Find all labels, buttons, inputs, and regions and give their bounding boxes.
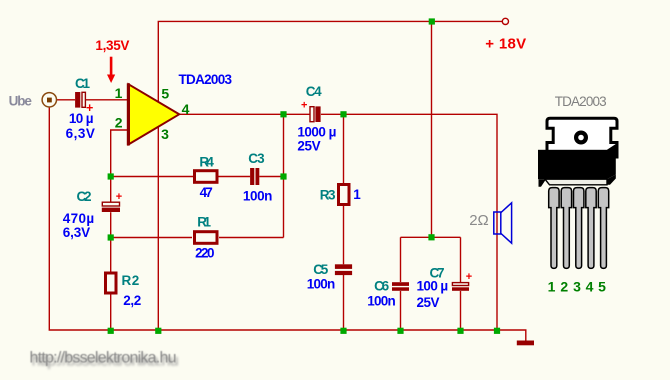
wire R3 to C5 bbox=[343, 206, 345, 264]
arrow 1,35V bbox=[107, 57, 115, 83]
resistor R1 bbox=[195, 232, 218, 244]
svg-text:6,3V: 6,3V bbox=[66, 126, 95, 141]
svg-text:2: 2 bbox=[115, 115, 123, 131]
svg-text:4: 4 bbox=[586, 278, 594, 294]
wire input ground run along bottom bbox=[49, 107, 526, 341]
wire feedback vertical from output node bbox=[283, 114, 285, 237]
node junction bottom C6 bbox=[397, 328, 403, 334]
svg-text:C2: C2 bbox=[77, 189, 92, 204]
node junction C2-R1-R2 bbox=[108, 234, 114, 240]
svg-text:3: 3 bbox=[573, 278, 581, 294]
svg-text:R1: R1 bbox=[197, 215, 211, 230]
wire C7 branch bottom bbox=[460, 291, 462, 330]
node junction output-R3 bbox=[340, 111, 346, 117]
wire R2 to bottom rail bbox=[110, 295, 112, 331]
svg-text:C4: C4 bbox=[306, 84, 322, 99]
node junction pin2-C2-R4 bbox=[108, 173, 114, 179]
svg-text:2,2: 2,2 bbox=[123, 293, 141, 308]
ground bbox=[517, 341, 534, 346]
wire C6 C7 top link bbox=[401, 236, 461, 238]
svg-text:TDA2003: TDA2003 bbox=[179, 72, 233, 87]
resistor R2 bbox=[106, 273, 117, 293]
wire pin3 to bottom rail bbox=[157, 128, 159, 331]
svg-text:R4: R4 bbox=[199, 154, 214, 169]
svg-text:C1: C1 bbox=[75, 76, 90, 91]
capacitor C3 bbox=[250, 168, 259, 185]
svg-text:220: 220 bbox=[195, 246, 214, 261]
node junction output-feedback bbox=[280, 111, 286, 117]
wire C1 to pin1 bbox=[86, 99, 128, 101]
svg-text:http://bsselektronika.hu: http://bsselektronika.hu bbox=[30, 349, 177, 366]
wire C2 bottom to node bbox=[110, 212, 112, 237]
svg-text:100n: 100n bbox=[367, 294, 396, 309]
wire node to C2 top bbox=[110, 177, 112, 202]
IC leg 4 bbox=[586, 188, 596, 269]
svg-text:C3: C3 bbox=[248, 151, 265, 166]
IC leg 5 bbox=[598, 188, 608, 269]
svg-text:2Ω: 2Ω bbox=[469, 212, 488, 229]
svg-text:1,35V: 1,35V bbox=[95, 38, 129, 53]
wire C6 branch top bbox=[400, 237, 402, 282]
node junction bottom C7 bbox=[457, 328, 463, 334]
IC leg 2 bbox=[561, 188, 571, 269]
node junction 18Vdrop-C6C7 bbox=[428, 234, 434, 240]
node junction bottom R2 bbox=[108, 328, 114, 334]
wire C5 to bottom rail bbox=[343, 275, 345, 330]
wire pin2 to node bbox=[111, 130, 128, 177]
wire R1 to node bbox=[111, 237, 192, 239]
IC package body side face bbox=[607, 144, 616, 179]
input terminal Ube bbox=[42, 93, 56, 107]
node junction C3-feedback bbox=[280, 173, 286, 179]
wire node to R2 bbox=[110, 238, 112, 272]
svg-text:C5: C5 bbox=[313, 262, 328, 277]
svg-text:1: 1 bbox=[548, 278, 556, 294]
IC package body bottom face bbox=[539, 175, 616, 187]
wire C7 branch top bbox=[460, 237, 462, 282]
IC package TDA2003 tab bbox=[547, 118, 617, 157]
svg-text:2: 2 bbox=[560, 278, 568, 294]
capacitor C4 bbox=[310, 106, 321, 122]
svg-text:1000 µ: 1000 µ bbox=[297, 125, 336, 140]
svg-text:5: 5 bbox=[161, 86, 169, 102]
capacitor C2 bbox=[102, 202, 120, 212]
wire top rail from pin5 to +18V terminal bbox=[158, 21, 504, 101]
svg-text:470µ: 470µ bbox=[63, 211, 94, 226]
wire C4 to speaker drop bbox=[321, 114, 497, 330]
speaker 2ohm bbox=[494, 203, 512, 243]
svg-text:+: + bbox=[301, 100, 307, 112]
capacitor C6 bbox=[392, 282, 409, 291]
resistor R3 bbox=[339, 185, 350, 205]
wire input to C1 bbox=[57, 99, 76, 101]
resistor R4 bbox=[195, 171, 218, 183]
watermark url bbox=[30, 349, 179, 369]
IC leg 1 bbox=[549, 188, 559, 269]
svg-text:25V: 25V bbox=[417, 295, 440, 310]
svg-text:1: 1 bbox=[115, 85, 123, 101]
terminal +18V open circle bbox=[502, 18, 508, 24]
wire C3 to node bbox=[259, 176, 283, 178]
svg-text:+ 18V: + 18V bbox=[485, 36, 526, 53]
wire output pin4 to C4 bbox=[179, 113, 310, 115]
svg-text:100 µ: 100 µ bbox=[417, 279, 449, 294]
svg-text:R3: R3 bbox=[320, 187, 336, 202]
svg-text:5: 5 bbox=[598, 278, 606, 294]
capacitor C7 bbox=[452, 283, 469, 291]
wire R1 line bbox=[219, 237, 284, 239]
IC package body front bbox=[538, 150, 607, 179]
wire node to R4 bbox=[111, 176, 193, 178]
IC package hole bbox=[576, 133, 586, 143]
IC leg 3 bbox=[574, 188, 584, 269]
wire R4 to C3 bbox=[219, 176, 251, 178]
op-amp U1 TDA2003 triangle bbox=[128, 83, 179, 145]
node junction bottom pin3 bbox=[155, 328, 161, 334]
wire C6 branch bottom bbox=[400, 291, 402, 330]
svg-text:100n: 100n bbox=[307, 277, 336, 292]
svg-text:10 µ: 10 µ bbox=[69, 111, 94, 126]
svg-text:C6: C6 bbox=[374, 278, 389, 293]
svg-text:+: + bbox=[116, 191, 122, 203]
svg-text:3: 3 bbox=[161, 126, 169, 142]
wire R3 branch top bbox=[343, 114, 345, 183]
svg-text:25V: 25V bbox=[297, 139, 320, 154]
svg-text:6,3V: 6,3V bbox=[63, 225, 90, 240]
node junction bottom speaker bbox=[494, 328, 500, 334]
node junction bottom C5 bbox=[340, 328, 346, 334]
capacitor C1 bbox=[75, 92, 85, 108]
svg-text:47: 47 bbox=[200, 185, 213, 200]
svg-text:1: 1 bbox=[353, 187, 361, 202]
svg-text:4: 4 bbox=[182, 101, 190, 117]
capacitor C5 bbox=[335, 264, 352, 275]
wire +18V drop bbox=[431, 21, 433, 237]
node junction +18V rail bbox=[429, 18, 435, 24]
svg-text:TDA2003: TDA2003 bbox=[555, 94, 607, 109]
svg-text:100n: 100n bbox=[243, 188, 273, 203]
svg-text:R2: R2 bbox=[122, 273, 140, 288]
svg-text:Ube: Ube bbox=[9, 94, 33, 109]
svg-text:+: + bbox=[466, 271, 472, 283]
